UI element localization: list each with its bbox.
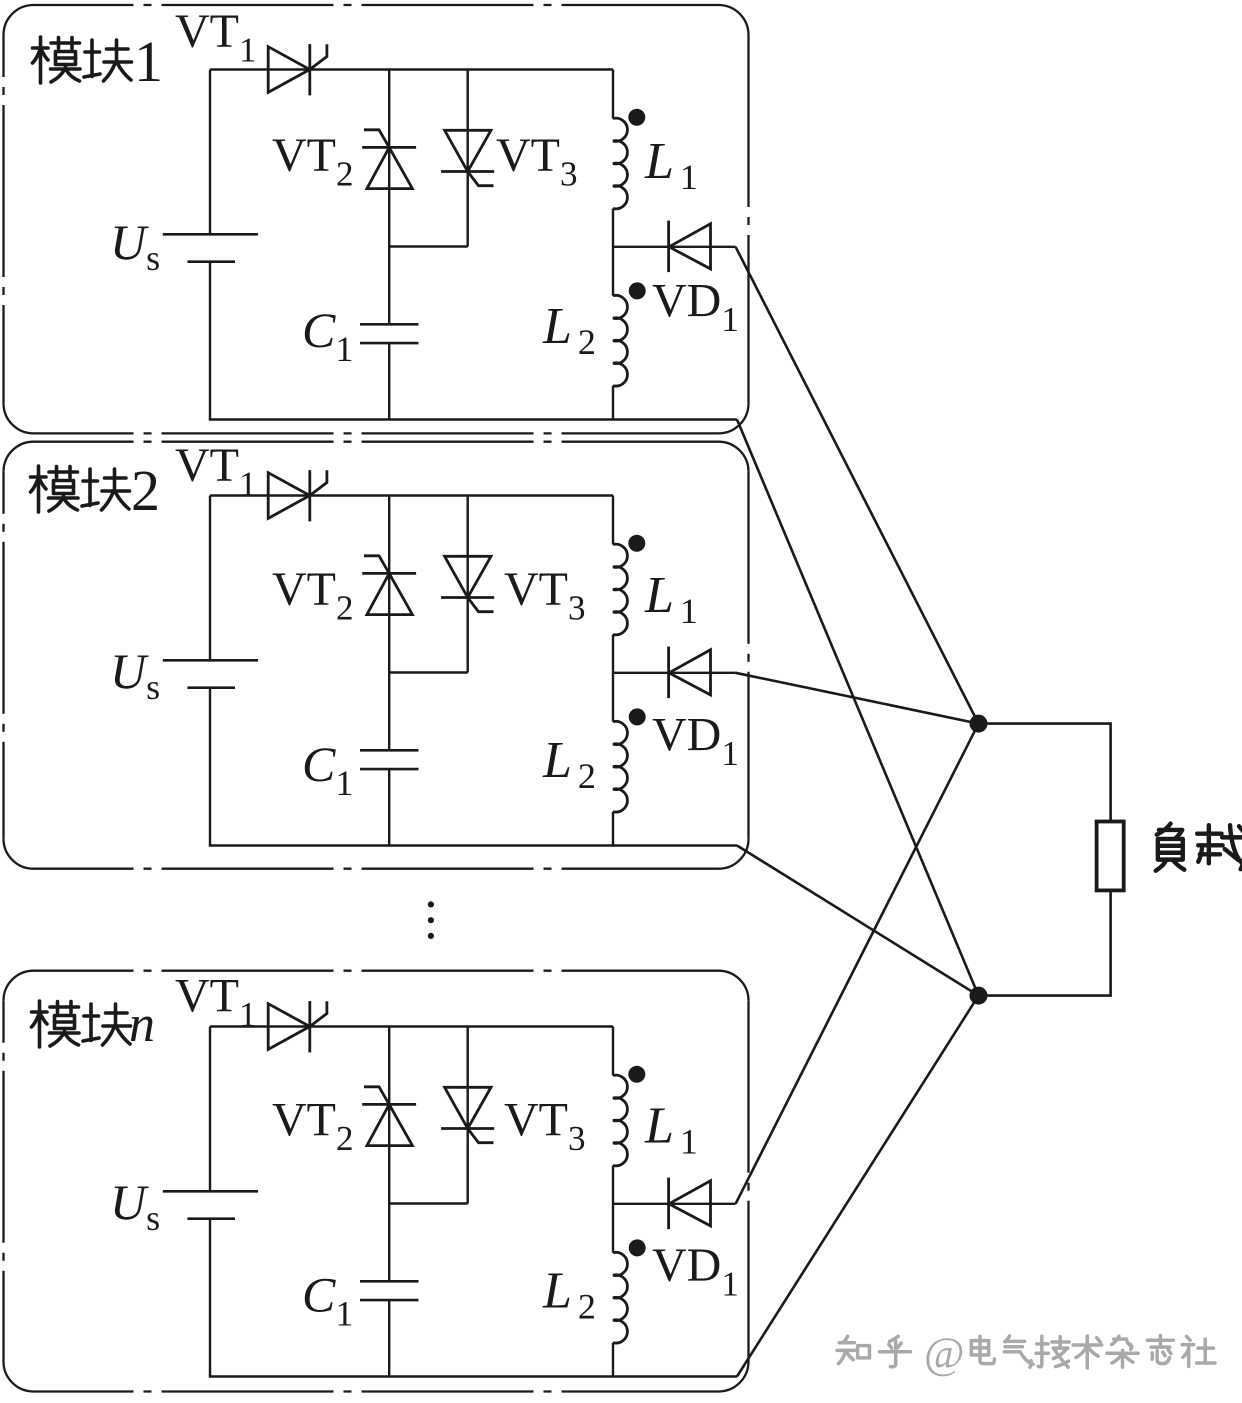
wire: bottom rail of module 1 (209, 418, 737, 420)
wire: top rail of module n (210, 1025, 613, 1027)
module 1 box (dash-dot border) (4, 5, 749, 433)
polarity dot of L1 of module 1 (628, 109, 645, 126)
thyristor VT3 of module 2 (441, 556, 494, 611)
wire: load to node B (979, 890, 1111, 995)
wire: connector VT2-VT3 branches of module 1 (389, 245, 468, 247)
wire: VT3 branch of module 2 (467, 496, 469, 673)
wire: right branch middle of module 1 (612, 209, 614, 296)
wire: VD1 output diagonal of module 2 to node A (736, 673, 979, 724)
wire: connector VT2-VT3 branches of module 2 (389, 671, 468, 673)
inductor L1 of module n (613, 1075, 627, 1166)
voltage source Us of module 2 (163, 660, 258, 687)
wire: right branch middle of module n (612, 1166, 614, 1253)
wire: VT3 branch of module 1 (467, 70, 469, 247)
wire: right branch bottom of module 2 (612, 812, 614, 846)
wire: left branch upper of module 2 (209, 496, 211, 661)
module n box (dash-dot border) (4, 971, 749, 1392)
capacitor C1 of module 1 (360, 324, 419, 343)
wire: VT2/C1 branch of module n (388, 1027, 390, 1377)
inductor L1 of module 1 (613, 118, 627, 209)
inductor L2 of module 1 (613, 295, 627, 386)
thyristor VT2 of module n (362, 1087, 416, 1146)
wire: right branch bottom of module n (612, 1343, 614, 1377)
wire: VD1 rail of module n (613, 1203, 736, 1205)
polarity dot of L2 of module 1 (629, 282, 646, 299)
svg-text:n: n (129, 996, 155, 1053)
thyristor VT1 of module n (268, 1001, 327, 1052)
wire: left branch lower of module 1 (209, 262, 211, 420)
diode VD1 of module 2 (669, 647, 711, 699)
thyristor VT2 of module 1 (362, 130, 416, 189)
wire: right branch top of module n (612, 1027, 614, 1076)
thyristor VT2 of module 2 (362, 556, 416, 615)
ellipsis dots (more modules) (428, 901, 434, 939)
load resistor (1097, 822, 1124, 891)
wire: bottom rail of module 2 (209, 844, 737, 846)
node B (bottom junction) (970, 987, 988, 1005)
diode VD1 of module n (669, 1178, 711, 1230)
wire: VD1 rail of module 2 (613, 672, 736, 674)
label 模块n (32, 996, 156, 1053)
wire: VT2/C1 branch of module 1 (388, 70, 390, 420)
thyristor VT1 of module 2 (268, 470, 327, 521)
capacitor C1 of module 2 (360, 750, 419, 769)
polarity dot of L2 of module n (629, 1239, 646, 1256)
voltage source Us of module n (163, 1191, 258, 1218)
wire: VD1 rail of module 1 (613, 246, 736, 248)
wire: left branch lower of module n (209, 1219, 211, 1377)
polarity dot of L1 of module n (628, 1066, 645, 1083)
inductor L2 of module n (613, 1252, 627, 1343)
wire: right branch top of module 1 (612, 70, 614, 119)
thyristor VT3 of module n (441, 1087, 494, 1142)
wire: top rail of module 2 (210, 494, 613, 496)
polarity dot of L2 of module 2 (629, 708, 646, 725)
watermark 知乎 @电气技术杂志社 (837, 1329, 1215, 1378)
wire: left branch lower of module 2 (209, 688, 211, 846)
node A (top junction) (970, 715, 988, 733)
wire: bottom output diagonal of module 1 to node B (737, 420, 979, 996)
wire: VD1 output diagonal of module 1 to node A (736, 247, 979, 724)
label 负载 (load) (1156, 824, 1242, 871)
thyristor VT3 of module 1 (441, 130, 494, 185)
svg-text:2: 2 (131, 458, 160, 523)
wire: bottom output diagonal of module 2 to node B (737, 846, 979, 996)
wire: bottom rail of module n (209, 1375, 737, 1377)
wire: VT2/C1 branch of module 2 (388, 496, 390, 846)
voltage source Us of module 1 (163, 234, 258, 261)
wire: right branch top of module 2 (612, 496, 614, 545)
module 2 box (dash-dot border) (4, 442, 749, 869)
wire: node A to load (979, 724, 1111, 822)
wire: left branch upper of module n (209, 1027, 211, 1192)
wire: bottom output diagonal of module n to node B (737, 996, 979, 1377)
label 模块2 (31, 458, 161, 523)
svg-text:@: @ (924, 1329, 965, 1378)
svg-text:1: 1 (134, 29, 163, 94)
wire: top rail of module 1 (210, 68, 613, 70)
wire: right branch bottom of module 1 (612, 386, 614, 420)
capacitor C1 of module n (360, 1281, 419, 1300)
wire: connector VT2-VT3 branches of module n (389, 1202, 468, 1204)
wire: VD1 output diagonal of module n to node A (736, 724, 979, 1204)
thyristor VT1 of module 1 (268, 44, 327, 95)
diode VD1 of module 1 (669, 221, 711, 273)
inductor L2 of module 2 (613, 721, 627, 812)
wire: VT3 branch of module n (467, 1027, 469, 1204)
wire: right branch middle of module 2 (612, 635, 614, 722)
polarity dot of L1 of module 2 (628, 535, 645, 552)
inductor L1 of module 2 (613, 544, 627, 635)
wire: left branch upper of module 1 (209, 70, 211, 235)
label 模块1 (33, 29, 164, 94)
